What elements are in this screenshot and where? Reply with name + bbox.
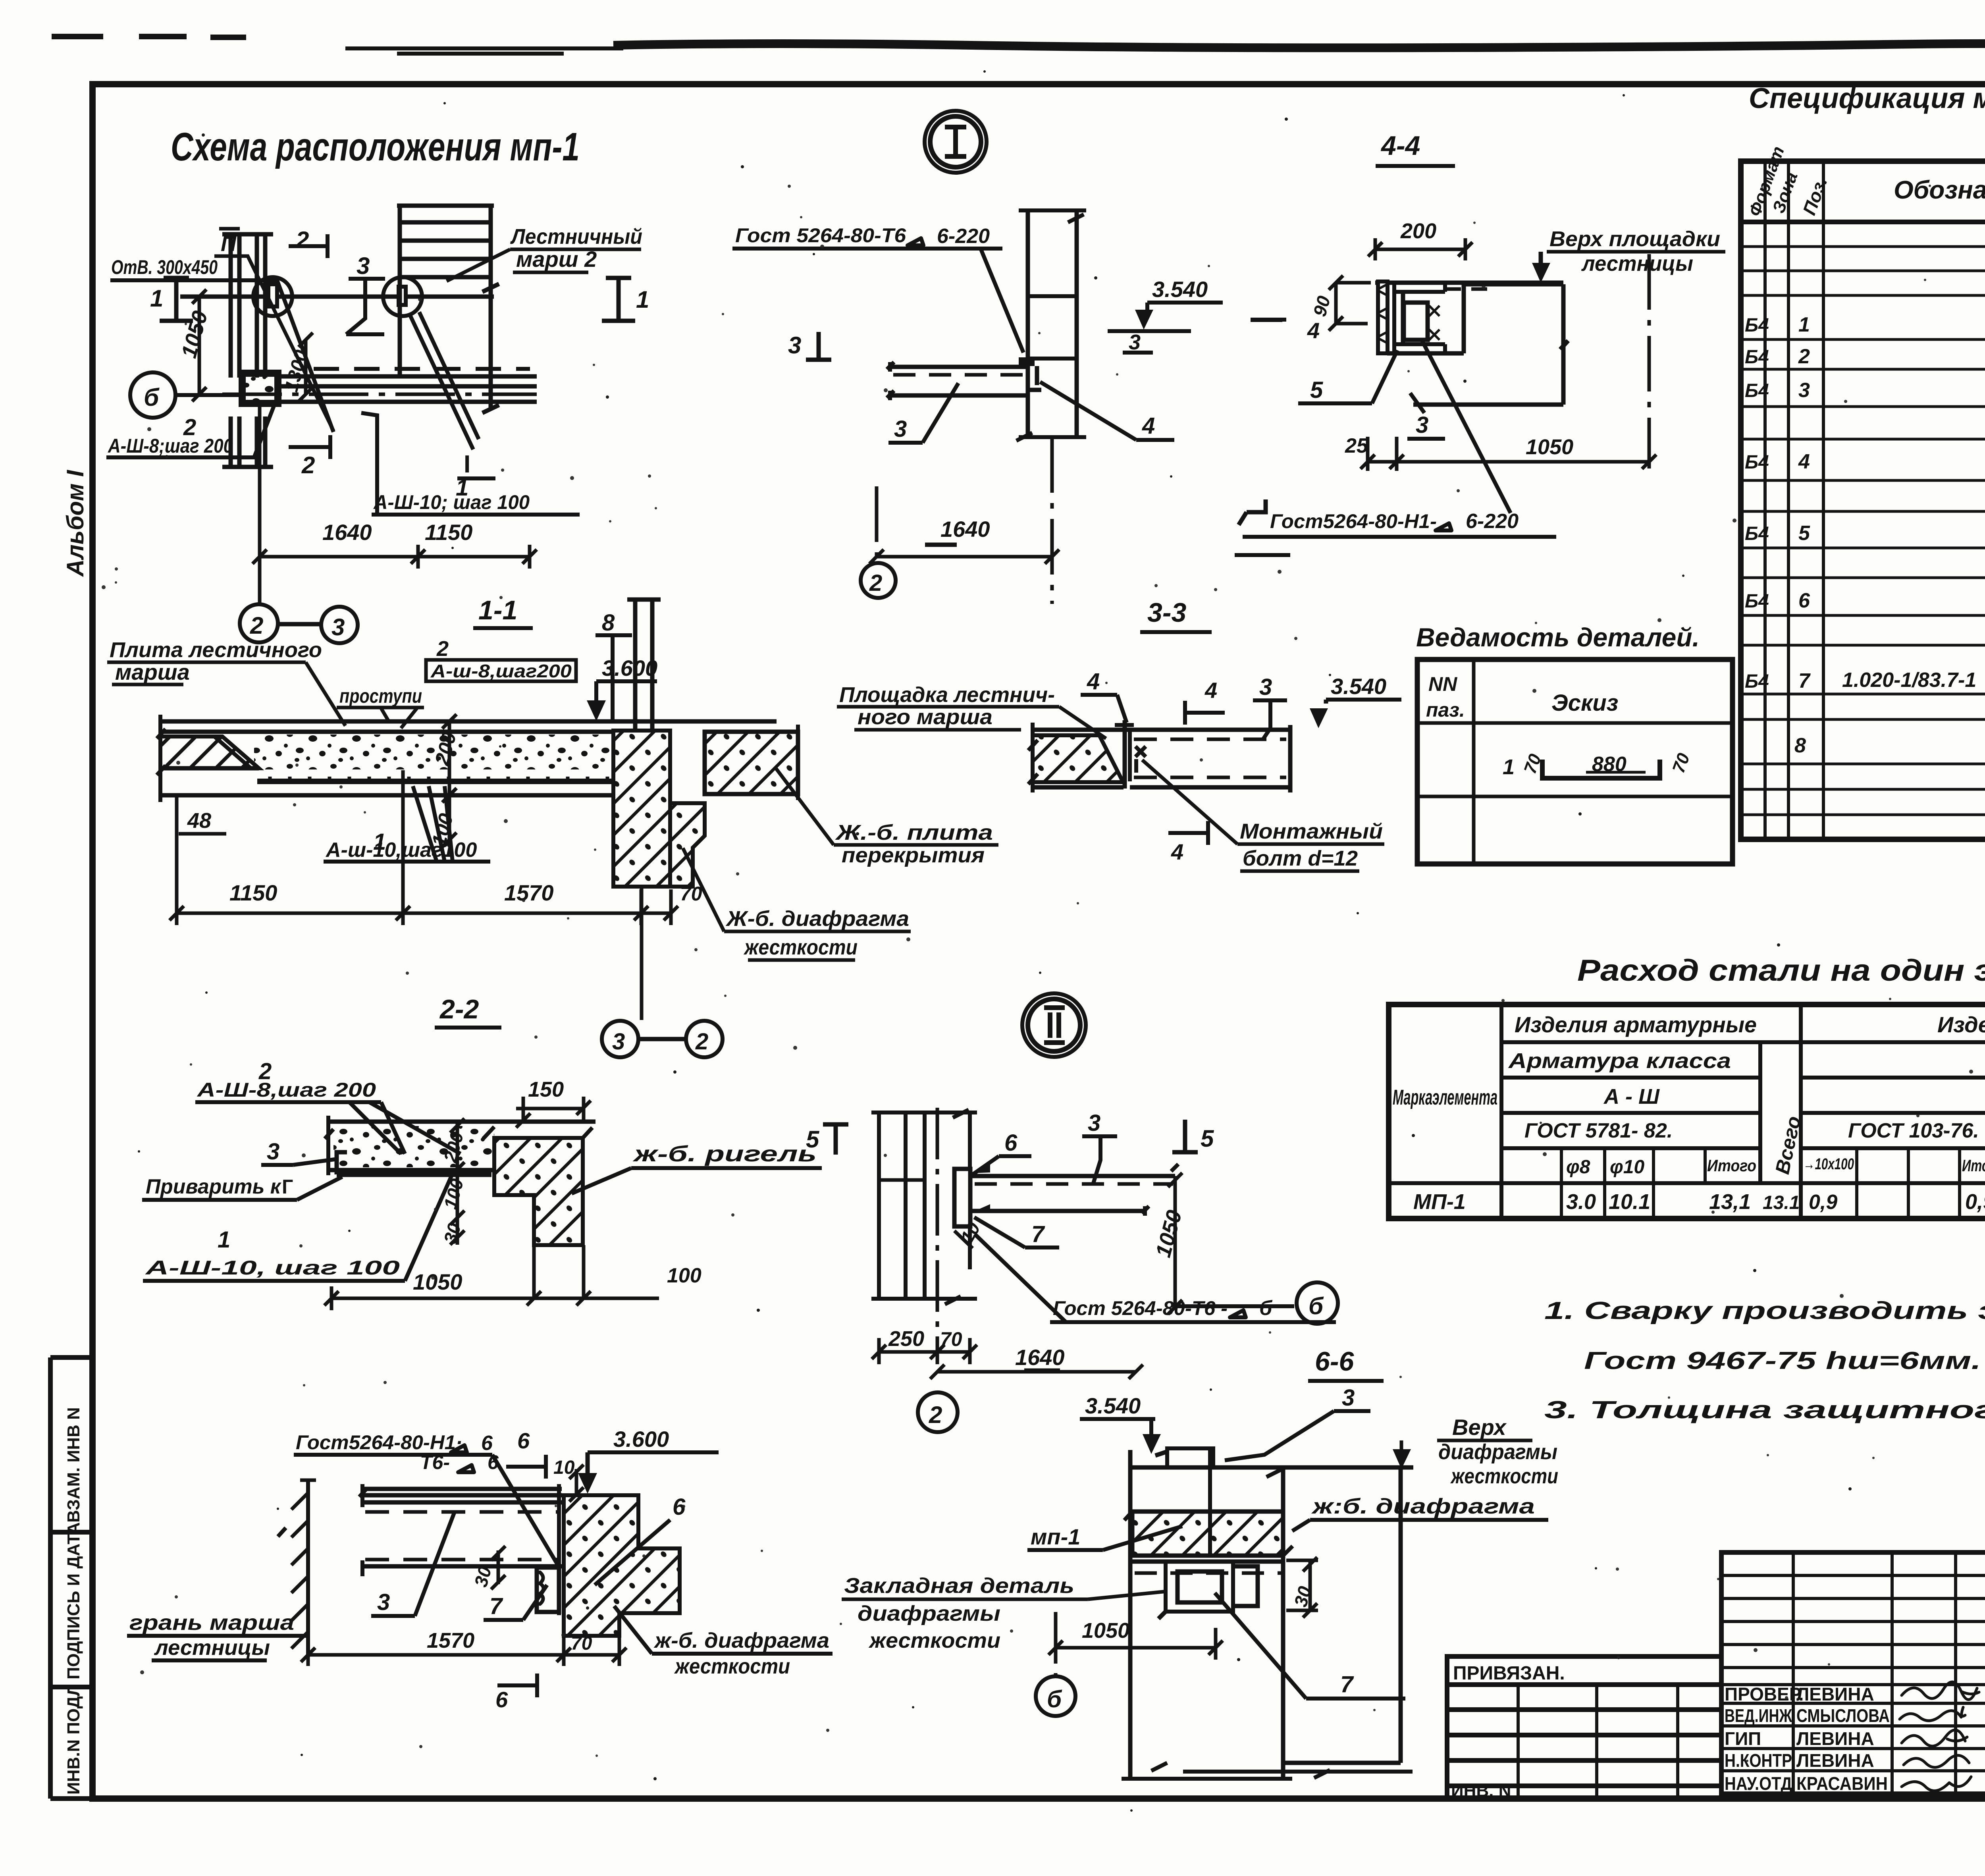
- svg-text:4: 4: [1142, 413, 1155, 439]
- svg-text:А-Ш-8,шаг 200: А-Ш-8,шаг 200: [196, 1079, 376, 1101]
- svg-text:Н.КОНТР: Н.КОНТР: [1725, 1750, 1792, 1771]
- svg-text:НАУ.ОТД: НАУ.ОТД: [1725, 1773, 1792, 1794]
- axis circle 2: [240, 604, 278, 642]
- bottom dims: [324, 1245, 591, 1310]
- svg-text:А-Ш-10, шаг 100: А-Ш-10, шаг 100: [145, 1257, 400, 1279]
- top line: [1375, 281, 1563, 285]
- svg-text:Монтажный: Монтажный: [1240, 819, 1383, 843]
- svg-text:1: 1: [218, 1227, 230, 1253]
- svg-text:КРАСАВИН: КРАСАВИН: [1796, 1773, 1888, 1794]
- bottom dim: [1183, 1770, 1413, 1778]
- svg-text:3.540: 3.540: [1331, 674, 1386, 699]
- svg-text:1150: 1150: [425, 520, 472, 545]
- svg-text:ВЕД.ИНЖ: ВЕД.ИНЖ: [1725, 1705, 1792, 1726]
- svg-text:Верх: Верх: [1452, 1415, 1507, 1440]
- svg-text:3: 3: [612, 1029, 625, 1055]
- svg-text:3.540: 3.540: [1152, 277, 1208, 302]
- svg-text:3: 3: [357, 253, 370, 279]
- left stamp column: [50, 1357, 93, 1799]
- wall with hatch: [306, 1480, 310, 1657]
- svg-text:1640: 1640: [940, 517, 990, 542]
- svg-text:200: 200: [1400, 219, 1436, 243]
- svg-text:3: 3: [1798, 379, 1810, 402]
- outer box and right rect: [1387, 283, 1568, 405]
- svg-text:1: 1: [1503, 755, 1515, 779]
- wall verticals: [879, 1112, 970, 1299]
- weld arrows: [970, 1165, 990, 1213]
- svg-text:А-Ш-10; шаг 100: А-Ш-10; шаг 100: [373, 491, 530, 513]
- svg-text:φ8: φ8: [1566, 1157, 1590, 1178]
- svg-text:б: б: [1309, 1293, 1324, 1319]
- svg-text:5: 5: [806, 1126, 820, 1153]
- svg-text:ного марша: ного марша: [858, 705, 992, 729]
- svg-text:ЛЕВИНА: ЛЕВИНА: [1796, 1684, 1874, 1704]
- svg-text:φ10: φ10: [1610, 1157, 1644, 1178]
- svg-text:7: 7: [1031, 1221, 1045, 1247]
- main horizontal axis line: [180, 295, 494, 299]
- svg-text:6-6: 6-6: [1315, 1346, 1354, 1377]
- floor slab right: [705, 732, 798, 794]
- svg-text:1: 1: [150, 285, 163, 312]
- svg-text:ИНВ. N: ИНВ. N: [1451, 1781, 1511, 1801]
- svg-text:жесткости: жесткости: [743, 935, 858, 959]
- svg-text:I: I: [464, 451, 470, 478]
- svg-text:ГОСТ 5781- 82.: ГОСТ 5781- 82.: [1524, 1119, 1673, 1142]
- svg-text:ПРИВЯЗАН.: ПРИВЯЗАН.: [1453, 1663, 1565, 1684]
- svg-text:3: 3: [1342, 1385, 1355, 1411]
- svg-text:10.1: 10.1: [1609, 1190, 1650, 1214]
- end plate: [954, 1169, 970, 1226]
- svg-text:70: 70: [571, 1633, 592, 1654]
- axis dash line left: [875, 486, 879, 564]
- svg-text:Приварить к: Приварить к: [146, 1175, 282, 1198]
- svg-text:грань марша: грань марша: [129, 1611, 294, 1635]
- svg-text:Гост5264-80-Н1·: Гост5264-80-Н1·: [296, 1431, 463, 1454]
- svg-text:болт d=12: болт d=12: [1243, 846, 1358, 870]
- dim 1050 vertical: [192, 289, 206, 401]
- svg-text:0,9: 0,9: [1809, 1191, 1837, 1214]
- svg-text:Б4: Б4: [1745, 380, 1769, 401]
- svg-text:1.020-1/83.7-1: 1.020-1/83.7-1: [1842, 669, 1976, 692]
- svg-text:Б4: Б4: [1745, 671, 1769, 692]
- svg-text:3: 3: [377, 1589, 390, 1615]
- stair flight strip upper: [222, 233, 273, 378]
- svg-text:3: 3: [1259, 674, 1272, 700]
- svg-text:→10х100: →10х100: [1803, 1155, 1854, 1173]
- svg-text:5: 5: [1201, 1125, 1214, 1152]
- svg-text:П: П: [221, 232, 237, 256]
- svg-text:1150: 1150: [229, 880, 277, 905]
- vertical dims 30/100/200: [450, 1118, 464, 1245]
- svg-text:1640: 1640: [322, 520, 372, 545]
- plan bottom dim line: [252, 545, 537, 569]
- signatures squiggles: [1902, 1682, 1979, 1699]
- svg-text:ВЗАМ. ИНВ N: ВЗАМ. ИНВ N: [64, 1407, 83, 1523]
- svg-text:Верх площадки: Верх площадки: [1549, 227, 1720, 251]
- left slab end breaks: [157, 715, 166, 802]
- svg-text:3. Толщина защитного слоя б: 3. Толщина защитного слоя бетона- 10мм.: [1544, 1396, 1985, 1424]
- corbel: [670, 803, 705, 887]
- svg-text:4: 4: [1087, 669, 1100, 694]
- beam lines lower group: [362, 1564, 562, 1569]
- axis circle 2: [918, 1392, 958, 1432]
- wall above slab: [627, 598, 661, 729]
- svg-text:ИНВ.N ПОДЛ: ИНВ.N ПОДЛ: [64, 1684, 83, 1795]
- svg-text:2-2: 2-2: [439, 994, 479, 1024]
- svg-text:3: 3: [788, 332, 801, 359]
- svg-text:NN: NN: [1428, 673, 1457, 695]
- svg-text:2: 2: [436, 637, 449, 661]
- hatched plate: [1378, 281, 1388, 353]
- svg-text:Обозначение: Обозначение: [1894, 175, 1985, 204]
- svg-text:13,1: 13,1: [1709, 1190, 1751, 1214]
- hatched band MP-1: [1132, 1512, 1283, 1556]
- svg-text:25: 25: [1345, 434, 1368, 457]
- dash-dot centerline right: [1648, 254, 1651, 469]
- svg-text:3: 3: [267, 1139, 279, 1165]
- svg-text:4: 4: [1307, 318, 1320, 343]
- circle b: [1036, 1676, 1075, 1716]
- svg-text:Гост5264-80-Н1-: Гост5264-80-Н1-: [1270, 510, 1437, 532]
- svg-text:ОтВ. 300х450: ОтВ. 300х450: [111, 256, 218, 278]
- svg-text:МП-1: МП-1: [1413, 1190, 1466, 1214]
- svg-text:Итого: Итого: [1707, 1156, 1756, 1175]
- welded plate node b: [244, 375, 276, 402]
- left dim 90 / mark 4: [1329, 276, 1371, 331]
- svg-text:паз.: паз.: [1426, 699, 1465, 721]
- circle b: [1297, 1282, 1338, 1324]
- detail circle marker right: [383, 277, 422, 316]
- steel deck right part: [1130, 725, 1290, 792]
- svg-text:3.600: 3.600: [613, 1427, 669, 1452]
- svg-text:13.1: 13.1: [1763, 1192, 1800, 1213]
- svg-text:6: 6: [1004, 1130, 1018, 1156]
- platform centerline: [222, 393, 537, 396]
- svg-text:1050: 1050: [413, 1269, 463, 1294]
- svg-text:диафрагмы: диафрагмы: [1438, 1440, 1557, 1464]
- svg-text:6: 6: [1798, 589, 1810, 612]
- svg-text:ж-б. диафрагма: ж-б. диафрагма: [653, 1629, 829, 1652]
- svg-text:ГИП: ГИП: [1725, 1728, 1761, 1749]
- svg-text:Лестничный: Лестничный: [510, 225, 642, 249]
- dim 100: [442, 795, 457, 847]
- svg-text:0,9: 0,9: [1965, 1190, 1985, 1214]
- svg-text:3: 3: [331, 614, 345, 640]
- svg-text:Гост 9467-75 hш=6мм.: Гост 9467-75 hш=6мм.: [1584, 1347, 1981, 1375]
- spec table grid: [1741, 161, 1985, 839]
- joint angle: [1123, 720, 1127, 789]
- section mark 6 bottom: [497, 1674, 537, 1697]
- beam (rigel) hatched: [494, 1138, 583, 1245]
- svg-text:жесткости: жесткости: [1450, 1464, 1558, 1488]
- svg-text:мп-1: мп-1: [1031, 1524, 1080, 1549]
- svg-text:6: 6: [495, 1687, 508, 1712]
- svg-text:Плита лестичного: Плита лестичного: [110, 638, 322, 662]
- svg-text:150: 150: [528, 1078, 564, 1101]
- svg-text:перекрытия: перекрытия: [842, 843, 985, 867]
- axis circles below wall: [640, 887, 644, 1020]
- svg-text:4: 4: [1171, 839, 1183, 864]
- slab top lines: [160, 721, 777, 732]
- svg-text:Б4: Б4: [1745, 452, 1769, 473]
- svg-text:2: 2: [295, 227, 309, 253]
- svg-text:Закладная деталь: Закладная деталь: [844, 1574, 1074, 1598]
- svg-text:6-220: 6-220: [1466, 510, 1519, 533]
- svg-text:СМЫСЛОВА: СМЫСЛОВА: [1796, 1705, 1890, 1726]
- svg-text:1: 1: [1798, 313, 1810, 336]
- central signature grid: [1721, 1552, 1985, 1794]
- weld joint blobs: [1019, 357, 1035, 366]
- svg-text:Гост 5264-80-Т6: Гост 5264-80-Т6: [735, 224, 906, 247]
- svg-text:6: 6: [517, 1428, 530, 1453]
- svg-text:2: 2: [250, 612, 263, 639]
- svg-text:1: 1: [636, 286, 649, 313]
- svg-text:8: 8: [602, 610, 615, 636]
- svg-text:Изделия закладные: Изделия закладные: [1937, 1012, 1985, 1037]
- diaphragm block hatched: [564, 1495, 680, 1636]
- svg-text:2: 2: [301, 452, 315, 478]
- svg-text:3: 3: [894, 416, 907, 442]
- svg-text:Ж-б. диафрагма: Ж-б. диафрагма: [725, 907, 909, 931]
- svg-text:жесткости: жесткости: [674, 1654, 790, 1678]
- slab concrete body: [254, 735, 613, 769]
- slab bottom and rebar: [160, 768, 613, 795]
- svg-text:1640: 1640: [1015, 1345, 1065, 1370]
- svg-text:Б4: Б4: [1745, 523, 1769, 544]
- dim 200: [442, 714, 457, 802]
- svg-text:7: 7: [1798, 669, 1811, 692]
- svg-text:Расход стали на один элеме: Расход стали на один элемент, кГ.: [1577, 954, 1985, 987]
- dim 1050 vertical: [1168, 1173, 1182, 1314]
- svg-text:А - Ш: А - Ш: [1603, 1085, 1660, 1109]
- svg-text:3-3: 3-3: [1147, 598, 1186, 628]
- svg-text:лестницы: лестницы: [154, 1636, 270, 1660]
- horizontal member: [970, 1176, 1175, 1211]
- column verticals: [1028, 210, 1077, 437]
- column outline: [1130, 1450, 1413, 1779]
- svg-text:1. Сварку производить электр: 1. Сварку производить электродами типа Э…: [1544, 1297, 1985, 1325]
- svg-text:ПОДПИСЬ И ДАТА: ПОДПИСЬ И ДАТА: [64, 1522, 83, 1679]
- svg-text:Итого: Итого: [1962, 1156, 1985, 1175]
- svg-text:100: 100: [667, 1264, 701, 1287]
- svg-text:ЛЕВИНА: ЛЕВИНА: [1796, 1728, 1874, 1749]
- svg-text:ж-б. ригель: ж-б. ригель: [632, 1141, 817, 1166]
- top channel: [1167, 1448, 1213, 1469]
- sketch channel: [1542, 760, 1660, 778]
- dim 1300 vertical: [299, 333, 313, 401]
- svg-text:3: 3: [1088, 1110, 1100, 1136]
- left stair plate hatched: [160, 737, 259, 768]
- svg-text:проступи: проступи: [339, 685, 422, 707]
- joint channel piece: [557, 1484, 561, 1615]
- stair flight strip lower: [222, 416, 273, 467]
- svg-text:Г: Г: [282, 1176, 293, 1198]
- svg-text:ж:б. диафрагма: ж:б. диафрагма: [1311, 1494, 1535, 1518]
- svg-text:2: 2: [1798, 345, 1810, 368]
- diaphragm wall hatched: [613, 731, 670, 887]
- svg-text:7: 7: [1340, 1672, 1354, 1697]
- line under band: [1130, 1560, 1283, 1564]
- detail circle I: [930, 116, 981, 167]
- column centerline below: [1050, 437, 1054, 604]
- svg-text:ПРОВЕР.: ПРОВЕР.: [1725, 1684, 1804, 1704]
- svg-text:1050: 1050: [1526, 435, 1573, 459]
- svg-text:Б4: Б4: [1745, 591, 1769, 612]
- top paper edge scan marks: [52, 37, 246, 37]
- background diaphragm right: [1283, 1467, 1401, 1763]
- svg-text:2: 2: [929, 1402, 942, 1428]
- svg-text:1-1: 1-1: [478, 595, 517, 625]
- embedded plate: [337, 1172, 491, 1177]
- svg-text:ГОСТ 103-76.: ГОСТ 103-76.: [1848, 1119, 1979, 1142]
- privyazan table: [1447, 1656, 1721, 1799]
- svg-text:3: 3: [1416, 412, 1428, 438]
- svg-text:Б4: Б4: [1745, 347, 1769, 368]
- svg-text:7: 7: [490, 1593, 503, 1619]
- svg-text:Арматура класса: Арматура класса: [1508, 1049, 1731, 1073]
- svg-text:2: 2: [695, 1029, 708, 1055]
- detail circle I marker left: [253, 277, 292, 316]
- svg-text:А-ш-8,шаг200: А-ш-8,шаг200: [430, 661, 572, 681]
- dashed top: [1445, 287, 1497, 291]
- svg-text:4-4: 4-4: [1380, 131, 1420, 161]
- svg-text:6-220: 6-220: [937, 225, 990, 248]
- dim 30: [491, 1546, 505, 1589]
- axis circle b: [130, 372, 175, 418]
- section mark 4 lower: [1168, 821, 1208, 845]
- channel: [1394, 283, 1445, 353]
- svg-text:Изделия арматурные: Изделия арматурные: [1515, 1012, 1757, 1037]
- hidden dashed edge: [314, 367, 530, 371]
- svg-text:б: б: [144, 384, 160, 411]
- dim 1640: [869, 549, 1059, 564]
- beam from left: [890, 367, 1028, 395]
- svg-text:Спецификация монолитной ж.б. л: Спецификация монолитной ж.б. лестничной: [1749, 83, 1985, 114]
- slab left landing part: [1033, 728, 1290, 732]
- embedded detail: [1166, 1562, 1233, 1612]
- svg-text:А-Ш-8;шаг 200: А-Ш-8;шаг 200: [107, 435, 233, 457]
- svg-text:8: 8: [1794, 734, 1806, 757]
- svg-text:1050: 1050: [1082, 1619, 1129, 1643]
- svg-text:Площадка лестнич-: Площадка лестнич-: [839, 683, 1055, 707]
- svg-text:1570: 1570: [427, 1629, 474, 1652]
- svg-text:Схема расположения мп-1: Схема расположения мп-1: [171, 125, 580, 169]
- svg-text:5: 5: [1310, 377, 1323, 403]
- axis circle 2: [861, 563, 896, 598]
- svg-text:б: б: [1047, 1686, 1062, 1712]
- svg-text:Эскиз: Эскиз: [1551, 690, 1618, 716]
- right stair flight (march 2): [397, 206, 494, 409]
- svg-text:4: 4: [1798, 450, 1810, 473]
- svg-text:3.540: 3.540: [1085, 1393, 1141, 1418]
- svg-text:ЛЕВИНА: ЛЕВИНА: [1796, 1750, 1874, 1771]
- svg-text:Ведамость деталей.: Ведамость деталей.: [1416, 623, 1700, 652]
- svg-text:Альбом I: Альбом I: [62, 470, 89, 577]
- svg-text:4: 4: [1204, 678, 1217, 703]
- beam lines top group: [362, 1489, 562, 1502]
- detail circle II: [1028, 999, 1080, 1051]
- svg-text:2: 2: [869, 570, 882, 596]
- svg-text:лестницы: лестницы: [1581, 252, 1693, 276]
- dim 30: [1303, 1557, 1317, 1618]
- axis circle 3: [321, 607, 358, 643]
- svg-text:жесткости: жесткости: [868, 1629, 1000, 1652]
- bolt box: [1404, 303, 1428, 340]
- bottom dim: [301, 1636, 626, 1666]
- slab outline: [328, 1122, 595, 1170]
- svg-text:Б4: Б4: [1745, 315, 1769, 336]
- svg-text:5: 5: [1798, 522, 1810, 545]
- bottom dim line: [170, 889, 678, 925]
- platform edge lines: [276, 376, 537, 402]
- svg-text:Маркаэлемента: Маркаэлемента: [1393, 1085, 1497, 1109]
- svg-text:70: 70: [680, 883, 702, 905]
- link line: [278, 622, 322, 627]
- svg-text:250: 250: [888, 1327, 924, 1351]
- svg-text:48: 48: [187, 809, 211, 833]
- svg-text:1570: 1570: [504, 880, 554, 905]
- svg-text:3.600: 3.600: [602, 656, 657, 681]
- svg-text:диафрагмы: диафрагмы: [858, 1602, 1000, 1625]
- svg-text:3.0: 3.0: [1566, 1190, 1596, 1214]
- GOST label with weld flag: [1239, 499, 1266, 525]
- leader line from plate to axis circle 2: [258, 402, 262, 603]
